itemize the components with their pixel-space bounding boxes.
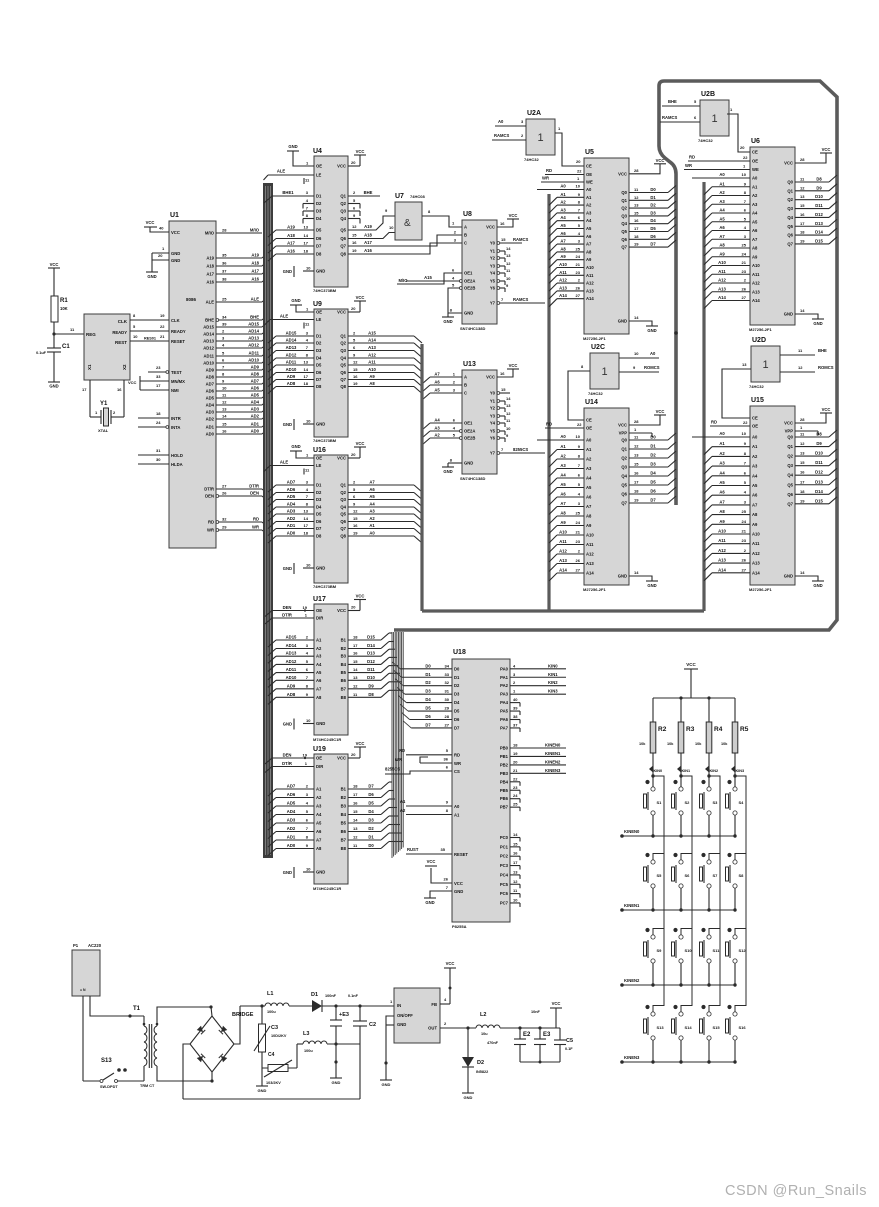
PPI U18 (8255A) bbox=[452, 659, 510, 922]
wire U1 RD pin 32 bbox=[216, 521, 219, 524]
svg-text:18: 18 bbox=[304, 531, 309, 536]
svg-text:Y7: Y7 bbox=[490, 451, 496, 456]
svg-text:AD15: AD15 bbox=[286, 331, 297, 336]
svg-text:RAMCS: RAMCS bbox=[513, 237, 529, 242]
wire U18 PA2 pin 2 KIN2 bbox=[510, 685, 566, 687]
svg-text:RUST: RUST bbox=[407, 847, 419, 852]
svg-text:U4: U4 bbox=[313, 148, 322, 155]
wire U19.B1 pin 18 D7 bbox=[348, 788, 381, 790]
svg-text:25: 25 bbox=[742, 243, 747, 248]
switch S8 pushbutton bbox=[735, 854, 746, 860]
wire U4.Q1 pin 2 BHE bbox=[348, 195, 380, 197]
svg-text:35: 35 bbox=[222, 253, 227, 258]
svg-text:AD6: AD6 bbox=[251, 386, 260, 391]
svg-text:A6: A6 bbox=[560, 231, 566, 236]
wire U18 A0 pin9 (A1) bbox=[406, 805, 452, 807]
svg-text:AD7: AD7 bbox=[206, 382, 215, 387]
svg-text:33: 33 bbox=[445, 672, 450, 677]
memory U14 (M27256-2F1) bbox=[584, 408, 629, 585]
svg-text:B5: B5 bbox=[341, 821, 347, 826]
svg-text:D3: D3 bbox=[454, 692, 460, 697]
svg-text:A8: A8 bbox=[752, 246, 758, 251]
svg-text:A3: A3 bbox=[316, 654, 322, 659]
wire U4.D3 pin 7 stub bbox=[303, 210, 314, 212]
wire U1 DEN pin 26 bbox=[216, 495, 219, 498]
svg-text:A18: A18 bbox=[206, 264, 214, 269]
svg-text:A19: A19 bbox=[206, 256, 214, 261]
svg-text:A6: A6 bbox=[434, 380, 440, 385]
svg-text:Q3: Q3 bbox=[787, 206, 793, 211]
wire switch S12 to row bus bbox=[734, 963, 736, 985]
wire top rail to resistor R4 bbox=[708, 698, 710, 722]
wire switch S16 to row bus bbox=[734, 1040, 736, 1062]
svg-text:KIN3: KIN3 bbox=[736, 769, 745, 773]
svg-text:32: 32 bbox=[222, 517, 227, 522]
wire U1 AD5 pin 11 bbox=[216, 397, 262, 399]
svg-text:AD10: AD10 bbox=[248, 358, 259, 363]
wire U18 WR pin36 bbox=[420, 757, 428, 763]
svg-text:17: 17 bbox=[304, 523, 309, 528]
svg-text:Y1: Y1 bbox=[490, 249, 496, 254]
wire U6 A14 pin 27 from address bus bbox=[712, 300, 750, 302]
svg-text:A9: A9 bbox=[752, 522, 758, 527]
wire X1 to crystal bbox=[89, 380, 91, 417]
svg-text:Q2: Q2 bbox=[621, 456, 627, 461]
wire U15 A14 pin 27 from address bus bbox=[712, 572, 750, 574]
svg-text:Q6: Q6 bbox=[340, 519, 346, 524]
OR gate U2B (74HC32) bbox=[700, 100, 729, 136]
svg-text:Q1: Q1 bbox=[340, 194, 346, 199]
svg-text:A5: A5 bbox=[719, 216, 725, 221]
wire U9.Q3 pin 6 A13 bbox=[348, 350, 414, 352]
svg-text:27: 27 bbox=[445, 722, 450, 727]
svg-text:PC4: PC4 bbox=[500, 872, 509, 877]
svg-text:12: 12 bbox=[800, 185, 805, 190]
svg-text:23: 23 bbox=[513, 785, 518, 790]
U5 GND pin14 symbol bbox=[629, 321, 652, 326]
wire U18 D6 pin 28 from data bus bbox=[410, 719, 452, 721]
svg-text:D15: D15 bbox=[367, 635, 375, 640]
wire U15 Q4 pin 16 D12 to data bus bbox=[795, 474, 829, 476]
svg-text:B2: B2 bbox=[341, 646, 347, 651]
wire U6 Q0 pin 11 D8 to data bus bbox=[795, 181, 829, 183]
wire U14 A1 pin 9 from address bus bbox=[557, 449, 584, 451]
svg-text:U2A: U2A bbox=[527, 110, 541, 117]
svg-text:C5: C5 bbox=[566, 1038, 573, 1044]
svg-text:17: 17 bbox=[156, 383, 161, 388]
svg-text:B1: B1 bbox=[341, 787, 347, 792]
svg-text:A11: A11 bbox=[752, 272, 760, 277]
svg-text:DEN: DEN bbox=[250, 491, 259, 496]
wire U6 WE pin27 WR bbox=[684, 169, 750, 171]
svg-text:D15: D15 bbox=[815, 498, 823, 503]
svg-text:U16: U16 bbox=[313, 447, 326, 454]
svg-text:VCC: VCC bbox=[337, 608, 346, 613]
svg-text:P8255A: P8255A bbox=[452, 924, 467, 929]
svg-text:0.1F: 0.1F bbox=[565, 1047, 573, 1051]
svg-text:WE: WE bbox=[586, 180, 593, 185]
svg-text:SN74HC138D: SN74HC138D bbox=[460, 476, 485, 481]
svg-text:D10: D10 bbox=[815, 194, 823, 199]
svg-text:A7: A7 bbox=[560, 239, 566, 244]
wire U14 A9 pin 24 from address bus bbox=[557, 525, 584, 527]
wire U17.A6 pin 7 AD10 bbox=[276, 679, 314, 681]
svg-text:D2: D2 bbox=[316, 490, 322, 495]
wire bridge right output up to DC rail bbox=[234, 1006, 240, 1044]
svg-text:AD0: AD0 bbox=[251, 429, 260, 434]
svg-text:12: 12 bbox=[634, 444, 639, 449]
svg-text:Q0: Q0 bbox=[621, 190, 627, 195]
latch U9 (74HC373BM) bbox=[314, 309, 348, 437]
svg-text:OE: OE bbox=[316, 164, 322, 169]
svg-text:L1: L1 bbox=[267, 991, 273, 997]
wire U13 Y3 pin 12 stub bbox=[497, 415, 500, 418]
wire U16.Q7 pin 16 A1 bbox=[348, 528, 414, 530]
svg-text:A10: A10 bbox=[586, 533, 594, 538]
wire U15 A9 pin 24 from address bus bbox=[712, 523, 750, 525]
svg-text:18: 18 bbox=[634, 489, 639, 494]
svg-text:35: 35 bbox=[441, 847, 446, 852]
svg-text:Y3: Y3 bbox=[490, 414, 496, 419]
svg-text:C: C bbox=[464, 241, 467, 246]
svg-text:36: 36 bbox=[222, 261, 227, 266]
wire U15 Q1 pin 12 D9 to data bus bbox=[795, 446, 829, 448]
svg-text:GND: GND bbox=[397, 1022, 406, 1027]
wire U15 A12 pin 2 from address bus bbox=[712, 552, 750, 554]
svg-text:A5: A5 bbox=[434, 388, 440, 393]
memory U15 (M27256-2F1) bbox=[750, 406, 795, 585]
svg-text:A6: A6 bbox=[586, 234, 592, 239]
wire U15 A10 pin 21 from address bus bbox=[712, 533, 750, 535]
wire U14 A0 pin10 bbox=[537, 439, 584, 441]
svg-text:Q2: Q2 bbox=[787, 197, 793, 202]
wire U2A input A0 pin3 bbox=[495, 125, 526, 127]
svg-text:A16: A16 bbox=[287, 249, 295, 254]
svg-text:100u: 100u bbox=[267, 1010, 276, 1014]
svg-text:AD9: AD9 bbox=[206, 368, 215, 373]
svg-text:20: 20 bbox=[351, 605, 356, 610]
svg-text:A13: A13 bbox=[586, 288, 594, 293]
svg-text:A2: A2 bbox=[719, 451, 725, 456]
svg-text:KINEN3: KINEN3 bbox=[545, 768, 561, 773]
svg-text:10nF: 10nF bbox=[531, 1010, 541, 1014]
svg-text:RD: RD bbox=[399, 748, 405, 753]
wire U9.Q1 pin 2 A15 bbox=[348, 335, 414, 337]
svg-text:10k: 10k bbox=[667, 742, 674, 746]
svg-text:RD: RD bbox=[454, 753, 460, 758]
wire U1 AD15 pin 39 bbox=[216, 326, 262, 328]
wire U19.B3 pin 16 D5 bbox=[348, 805, 381, 807]
svg-text:A4: A4 bbox=[316, 662, 322, 667]
svg-text:A2: A2 bbox=[752, 454, 758, 459]
svg-text:15: 15 bbox=[634, 210, 639, 215]
svg-text:AD3: AD3 bbox=[206, 410, 215, 415]
svg-text:AD4: AD4 bbox=[287, 502, 296, 507]
wire U9.Q8 pin 19 A8 bbox=[348, 386, 414, 388]
wire U16.D1 pin 3 AD7 bbox=[276, 484, 314, 486]
wire U5 A1 pin 9 from address bus bbox=[557, 196, 584, 198]
svg-text:39: 39 bbox=[222, 322, 227, 327]
wire U18 D3 pin 31 from data bus bbox=[405, 693, 452, 695]
svg-text:KIN3: KIN3 bbox=[548, 689, 558, 694]
U1 pin17 NMI wire bbox=[140, 389, 169, 391]
wire U14 A11 pin 23 from address bus bbox=[557, 544, 584, 546]
svg-text:A7: A7 bbox=[560, 501, 566, 506]
svg-text:A14: A14 bbox=[368, 338, 376, 343]
svg-text:RD: RD bbox=[689, 155, 695, 160]
wire U8 Y1 pin 14 stub bbox=[497, 250, 500, 253]
wire U6 A3 pin 7 from address bus bbox=[712, 203, 750, 205]
svg-text:13: 13 bbox=[506, 253, 511, 258]
svg-text:Y2: Y2 bbox=[490, 256, 496, 261]
wire U17.A4 pin 5 AD12 bbox=[276, 663, 314, 665]
svg-text:AD3: AD3 bbox=[251, 407, 260, 412]
svg-text:B4: B4 bbox=[341, 812, 347, 817]
svg-text:READY: READY bbox=[112, 330, 127, 335]
wire U16.Q8 pin 19 A0 bbox=[348, 535, 414, 537]
svg-text:PC7: PC7 bbox=[500, 900, 509, 905]
svg-text:24: 24 bbox=[576, 254, 581, 259]
svg-text:20: 20 bbox=[740, 145, 745, 150]
svg-text:14: 14 bbox=[506, 246, 511, 251]
wire P1 L to S13 bbox=[82, 996, 84, 1081]
wire U1 A17 pin 37 bbox=[216, 273, 262, 275]
svg-text:AD10: AD10 bbox=[203, 361, 214, 366]
svg-text:U18: U18 bbox=[453, 649, 466, 656]
svg-text:AD2: AD2 bbox=[206, 417, 215, 422]
wire U14 A4 pin 6 from address bus bbox=[557, 477, 584, 479]
wire U15 A2 pin 8 from address bus bbox=[712, 455, 750, 457]
svg-text:AD11: AD11 bbox=[249, 351, 260, 356]
svg-text:PA0: PA0 bbox=[500, 666, 509, 671]
wire U6 A5 pin 5 from address bus bbox=[712, 221, 750, 223]
svg-text:KINEN1: KINEN1 bbox=[545, 751, 561, 756]
thick bus: address riser x=422 (latched address collector) bbox=[420, 344, 423, 611]
svg-text:U19: U19 bbox=[313, 746, 326, 753]
svg-text:D5: D5 bbox=[316, 512, 322, 517]
svg-text:A9: A9 bbox=[586, 523, 592, 528]
wire U8 Y3 pin 12 stub bbox=[497, 265, 500, 268]
svg-text:1: 1 bbox=[601, 366, 607, 378]
svg-text:GND: GND bbox=[647, 583, 656, 588]
ground (C4 branch) bbox=[261, 1068, 263, 1086]
wire T1 secondary bottom to rail bbox=[157, 1066, 211, 1081]
wire U1 AD3 pin 13 bbox=[216, 411, 262, 413]
svg-text:D2: D2 bbox=[316, 341, 322, 346]
svg-text:D3: D3 bbox=[425, 689, 431, 694]
svg-text:RAMCS: RAMCS bbox=[494, 133, 510, 138]
wire U4.Q4 pin 9 stub bbox=[348, 218, 360, 220]
wire U18 PA7 pin 37 stub bbox=[510, 727, 520, 729]
svg-text:103/2KV: 103/2KV bbox=[266, 1081, 281, 1085]
wire L1 to D1 bbox=[289, 1005, 312, 1007]
wire U6 A6 pin 4 from address bus bbox=[712, 230, 750, 232]
svg-text:28: 28 bbox=[634, 419, 639, 424]
svg-text:26: 26 bbox=[576, 285, 581, 290]
svg-text:A1: A1 bbox=[719, 441, 725, 446]
svg-text:WR: WR bbox=[542, 176, 549, 181]
svg-text:Q7: Q7 bbox=[340, 377, 346, 382]
svg-text:24: 24 bbox=[576, 520, 581, 525]
svg-text:KIN2: KIN2 bbox=[710, 769, 719, 773]
wire U19 DIR pin1 DT/R bbox=[272, 766, 314, 768]
switch S13 pushbutton bbox=[653, 1006, 664, 1012]
svg-text:A3: A3 bbox=[560, 463, 566, 468]
svg-text:D7: D7 bbox=[316, 377, 322, 382]
svg-text:10: 10 bbox=[576, 434, 581, 439]
svg-text:AD5: AD5 bbox=[287, 494, 296, 499]
svg-text:PA3: PA3 bbox=[500, 692, 509, 697]
svg-text:KIN1: KIN1 bbox=[548, 672, 558, 677]
svg-text:D3: D3 bbox=[316, 348, 322, 353]
svg-text:Q4: Q4 bbox=[621, 221, 627, 226]
wire U4.D6 pin 14 A18 bbox=[276, 238, 314, 240]
svg-text:B3: B3 bbox=[341, 654, 347, 659]
svg-text:U7: U7 bbox=[395, 193, 404, 200]
svg-text:D3: D3 bbox=[368, 818, 374, 823]
svg-text:A12: A12 bbox=[586, 281, 594, 286]
svg-text:Q2: Q2 bbox=[787, 454, 793, 459]
svg-text:10: 10 bbox=[222, 386, 227, 391]
svg-text:AD8: AD8 bbox=[251, 372, 260, 377]
svg-text:74HC32: 74HC32 bbox=[588, 391, 603, 396]
wire U17.B8 pin 11 D8 bbox=[348, 696, 381, 698]
svg-text:A13: A13 bbox=[718, 558, 726, 563]
column trunk KIN2 bbox=[709, 776, 720, 1006]
svg-text:A2: A2 bbox=[400, 808, 406, 813]
svg-text:FB: FB bbox=[431, 1002, 437, 1007]
svg-text:D7: D7 bbox=[425, 722, 431, 727]
svg-text:13: 13 bbox=[304, 509, 309, 514]
svg-text:A9: A9 bbox=[560, 254, 566, 259]
wire U17.B4 pin 15 D12 bbox=[348, 663, 381, 665]
svg-text:VCC: VCC bbox=[337, 756, 346, 761]
svg-text:BHE1: BHE1 bbox=[282, 190, 294, 195]
svg-text:GND: GND bbox=[316, 269, 325, 274]
svg-text:LE: LE bbox=[316, 463, 322, 468]
svg-text:D1: D1 bbox=[316, 194, 322, 199]
switch S2 pushbutton bbox=[673, 780, 677, 784]
svg-text:14: 14 bbox=[353, 818, 358, 823]
svg-text:KINEN1: KINEN1 bbox=[624, 903, 640, 908]
svg-text:10: 10 bbox=[506, 276, 511, 281]
wire U18 D7 pin 27 from data bus bbox=[411, 727, 452, 729]
svg-text:A7: A7 bbox=[586, 504, 592, 509]
svg-text:X2: X2 bbox=[122, 364, 127, 370]
svg-text:D6: D6 bbox=[368, 792, 374, 797]
svg-text:U15: U15 bbox=[751, 397, 764, 404]
wire U14 A8 pin 25 from address bus bbox=[557, 515, 584, 517]
svg-text:RESET: RESET bbox=[171, 339, 185, 344]
svg-text:AD14: AD14 bbox=[286, 643, 297, 648]
svg-text:U14: U14 bbox=[585, 399, 598, 406]
svg-text:14: 14 bbox=[304, 233, 309, 238]
svg-text:B: B bbox=[464, 383, 467, 388]
wire U1 AD7 pin 9 bbox=[216, 383, 262, 385]
wire U17.A5 pin 6 AD11 bbox=[276, 672, 314, 674]
svg-text:10: 10 bbox=[742, 172, 747, 177]
svg-text:A13: A13 bbox=[586, 561, 594, 566]
svg-text:VCC: VCC bbox=[50, 262, 59, 267]
svg-text:GND: GND bbox=[332, 1080, 341, 1085]
svg-text:Q6: Q6 bbox=[787, 233, 793, 238]
svg-text:16: 16 bbox=[500, 371, 505, 376]
svg-text:C1: C1 bbox=[62, 344, 70, 350]
svg-text:27: 27 bbox=[742, 567, 747, 572]
wire U4.D7 pin 17 A17 bbox=[276, 245, 314, 247]
svg-text:28: 28 bbox=[800, 417, 805, 422]
svg-text:AD7: AD7 bbox=[287, 784, 296, 789]
svg-text:D8: D8 bbox=[316, 534, 322, 539]
svg-text:VCC: VCC bbox=[784, 421, 793, 426]
wire switch S11 to row bus bbox=[708, 963, 710, 985]
svg-text:Y5: Y5 bbox=[490, 429, 496, 434]
svg-text:VCC: VCC bbox=[128, 380, 137, 385]
svg-text:D2: D2 bbox=[454, 683, 460, 688]
svg-text:24: 24 bbox=[513, 793, 518, 798]
svg-text:P1: P1 bbox=[73, 943, 79, 948]
switch S1 pushbutton bbox=[645, 780, 649, 784]
svg-text:Q3: Q3 bbox=[621, 465, 627, 470]
svg-text:S7: S7 bbox=[713, 873, 719, 878]
svg-text:KIN1: KIN1 bbox=[682, 769, 691, 773]
svg-text:A1: A1 bbox=[369, 523, 375, 528]
svg-text:RES01: RES01 bbox=[144, 337, 156, 341]
svg-text:A4: A4 bbox=[586, 218, 592, 223]
wire U15 A5 pin 5 from address bus bbox=[712, 485, 750, 487]
wire switch S15 to row bus bbox=[708, 1040, 710, 1062]
svg-text:VCC: VCC bbox=[618, 171, 627, 176]
svg-text:D0: D0 bbox=[650, 187, 656, 192]
wire U14 Q6 pin 18 D6 to data bus bbox=[629, 493, 668, 495]
wire U18 D1 pin 33 from data bus bbox=[402, 676, 452, 678]
svg-text:BHE: BHE bbox=[818, 348, 827, 353]
svg-text:D5: D5 bbox=[316, 363, 322, 368]
svg-text:VCC: VCC bbox=[822, 147, 831, 152]
wire U6 A4 pin 6 from address bus bbox=[712, 212, 750, 214]
svg-text:A7: A7 bbox=[586, 242, 592, 247]
wire U17.A1 pin 2 AD15 bbox=[276, 639, 314, 641]
svg-text:15: 15 bbox=[222, 422, 227, 427]
svg-text:20: 20 bbox=[351, 452, 356, 457]
svg-text:A3: A3 bbox=[316, 804, 322, 809]
svg-text:REST: REST bbox=[115, 340, 127, 345]
node RES junction bbox=[52, 332, 55, 335]
svg-text:Q5: Q5 bbox=[340, 363, 346, 368]
svg-text:D6: D6 bbox=[650, 489, 656, 494]
svg-text:LE: LE bbox=[316, 317, 322, 322]
svg-text:A14: A14 bbox=[586, 296, 594, 301]
svg-text:AD14: AD14 bbox=[248, 329, 259, 334]
svg-text:A12: A12 bbox=[559, 549, 567, 554]
svg-text:S10: S10 bbox=[685, 948, 693, 953]
wire switch S8 to row bus bbox=[734, 888, 736, 910]
svg-text:D0: D0 bbox=[368, 843, 374, 848]
svg-text:23: 23 bbox=[742, 269, 747, 274]
svg-text:VCC: VCC bbox=[486, 375, 495, 380]
svg-text:14: 14 bbox=[800, 570, 805, 575]
svg-text:SN74HC138D: SN74HC138D bbox=[460, 326, 485, 331]
svg-text:23: 23 bbox=[156, 365, 161, 370]
resistor R4 10k bbox=[706, 722, 712, 753]
svg-text:+E3: +E3 bbox=[339, 1012, 349, 1018]
svg-text:D7: D7 bbox=[454, 725, 460, 730]
svg-text:L3: L3 bbox=[303, 1031, 309, 1037]
wire U14 Q7 pin 19 D7 to data bus bbox=[629, 502, 668, 504]
wire U6 A13 pin 26 from address bus bbox=[712, 291, 750, 293]
wire U19.A2 pin 3 AD6 bbox=[276, 797, 314, 799]
wire U16.Q1 pin 2 A7 bbox=[348, 484, 414, 486]
